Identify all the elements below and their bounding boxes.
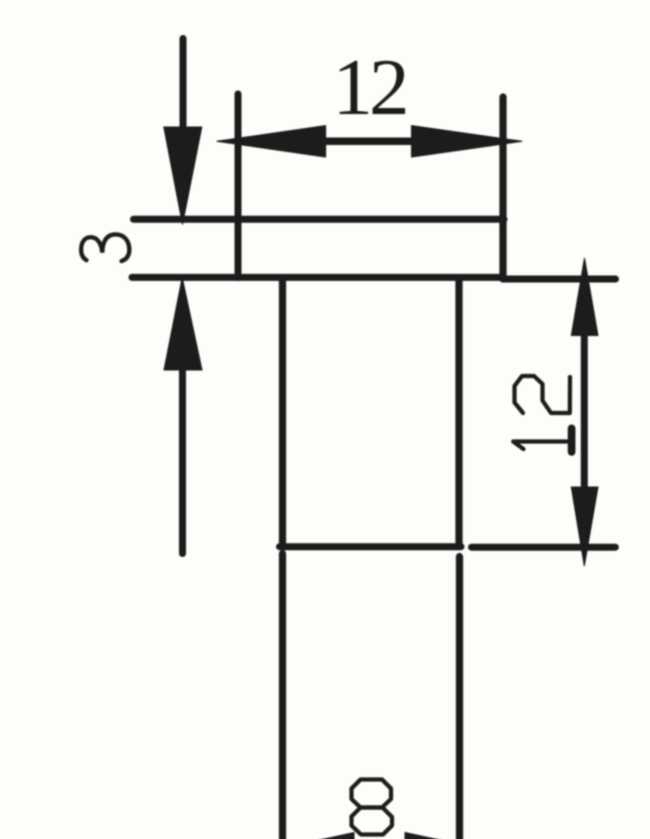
dim value 3 left (digit 3, drawn) [81,234,129,261]
dim 3 left: lower arrowhead (up) [164,278,202,371]
stem left edge [279,278,286,547]
stem right edge [455,278,462,547]
bottom right extension line [472,544,616,551]
dim value 12 right (CAD stick digit 2) [515,376,571,413]
dim 8 bottom: left arrowhead (partially visible) [297,833,354,839]
svg-text:12: 12 [333,42,407,132]
dim 3 left: lower dimension line [179,365,186,554]
flange bottom edge line [132,274,504,281]
lower section right edge [456,557,463,839]
dim 12 right: bottom arrowhead (down) [571,487,598,566]
dim 12 top: right arrowhead [412,126,523,157]
dim value 12 right (CAD stick digit 1) [513,428,571,452]
flange left edge + extension line [235,94,242,278]
lower section left edge [279,554,286,839]
dim value 8 bottom (CAD stick digit 8, upper loop) [352,780,392,808]
flange top edge line [134,216,505,223]
dim 8 bottom: right arrowhead (partially visible) [405,833,463,839]
dim 3 left: upper dimension line [180,39,187,136]
dim value 8 bottom (lower loop) [352,808,393,835]
dim 12 top: dimension line [326,138,412,146]
flange bottom extension line (right, for dim 12) [503,276,616,283]
flange right edge + extension line [499,97,506,279]
dim 12 top: left arrowhead [217,126,326,157]
dim 3 left: upper arrowhead (down) [164,127,202,225]
step line (stem bottom) [280,543,462,550]
dim 12 right: top arrowhead (up) [571,258,598,336]
dim 12 right: dimension line [581,335,588,487]
